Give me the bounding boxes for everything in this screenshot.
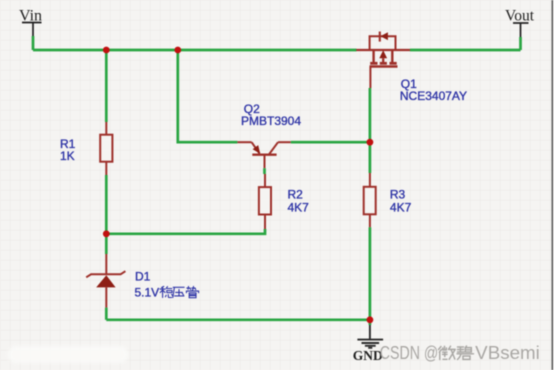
- wire rail to R1: [105, 50, 108, 122]
- transistor Q2: [237, 142, 290, 168]
- junction on rail at Q2 branch: [174, 47, 181, 54]
- ground symbol: [357, 325, 383, 348]
- resistor R2: [259, 174, 271, 229]
- svg-text:D1: D1: [135, 270, 151, 284]
- wire R1 to node D1: [105, 175, 108, 254]
- svg-text:1K: 1K: [60, 149, 75, 163]
- resistor R3: [364, 173, 376, 227]
- wire D1 to ground rail: [105, 308, 108, 320]
- svg-text:GND: GND: [353, 348, 383, 363]
- wire Vout stub: [519, 37, 522, 50]
- svg-text:PMBT3904: PMBT3904: [241, 114, 301, 128]
- wire R3 to ground rail: [369, 227, 372, 319]
- wire Q1 gate to node: [369, 88, 372, 173]
- junction gate node: [367, 139, 374, 146]
- junction ground node: [367, 316, 374, 323]
- junction on rail at R1: [103, 47, 110, 54]
- transistor Q1 P-MOSFET: [356, 32, 410, 89]
- watermark chinese glyph bi: [457, 346, 474, 359]
- diode D1 zener: [86, 254, 125, 308]
- wire ground rail: [106, 318, 370, 321]
- watermark CSDN: [380, 343, 540, 363]
- watermark smudge bottom-left: [8, 346, 128, 363]
- svg-text:4K7: 4K7: [288, 201, 310, 215]
- wire Q1 to Vout rail: [410, 49, 521, 52]
- junction node R1/D1/R2: [103, 230, 110, 237]
- wire rail junction to Q2 collector: [178, 50, 238, 142]
- svg-text:CSDN @: CSDN @: [380, 343, 439, 363]
- wire Q2 base to R2: [263, 168, 266, 174]
- wire Vin stub: [32, 36, 35, 50]
- svg-text:NCE3407AY: NCE3407AY: [400, 89, 467, 103]
- watermark chinese glyph wei: [439, 346, 456, 359]
- svg-text:Vout: Vout: [505, 8, 535, 25]
- wire Q2 emitter to gate node: [291, 141, 370, 144]
- svg-text:5.1V: 5.1V: [135, 286, 160, 300]
- svg-text:R2: R2: [288, 188, 304, 202]
- svg-text:VBsemi: VBsemi: [475, 343, 540, 363]
- wire Vin rail to Q1: [33, 49, 357, 52]
- right window border: [551, 0, 553, 370]
- svg-text:R3: R3: [390, 188, 406, 202]
- svg-text:4K7: 4K7: [390, 201, 412, 215]
- resistor R1: [100, 122, 112, 175]
- wire ground stub: [369, 320, 372, 325]
- port Vout: [505, 8, 535, 38]
- wire node to R2 bottom: [106, 229, 265, 234]
- port Vin: [19, 8, 42, 37]
